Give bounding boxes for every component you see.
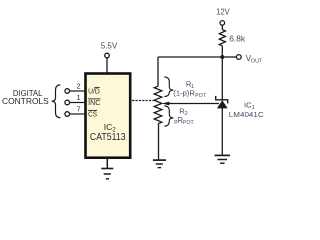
- pin terminal 1: [65, 100, 70, 105]
- svg-text:POT: POT: [183, 120, 194, 126]
- ground IC2: [101, 169, 113, 179]
- brace digital controls: [52, 85, 61, 118]
- svg-text:CONTROLS: CONTROLS: [2, 97, 49, 106]
- brace R1 section: [164, 77, 173, 97]
- svg-text:(1-p)R: (1-p)R: [173, 89, 195, 98]
- ground diode: [215, 155, 230, 163]
- svg-text:INC: INC: [88, 98, 100, 107]
- dashed control line from IC2 to pot: [132, 100, 154, 102]
- supply terminal 12V: [216, 8, 230, 26]
- svg-text:CS: CS: [88, 110, 97, 119]
- wire pin 7: [70, 113, 85, 115]
- wire IC2 to ground: [106, 158, 108, 168]
- svg-text:LM4041C: LM4041C: [229, 110, 264, 119]
- wire pot riser: [157, 57, 159, 86]
- label R1: [186, 79, 194, 90]
- pin label CS-bar: [88, 110, 97, 119]
- svg-text:1: 1: [77, 93, 81, 102]
- svg-text:CAT5113: CAT5113: [90, 132, 126, 143]
- label R2: [179, 106, 188, 117]
- wire pin 1: [70, 102, 85, 104]
- svg-text:2: 2: [77, 81, 81, 90]
- svg-text:POT: POT: [195, 93, 206, 99]
- potentiometer body (CAT5113): [154, 86, 162, 124]
- ground pot: [153, 160, 166, 168]
- brace R2 section: [164, 106, 173, 126]
- wire node to VOUT terminal: [222, 56, 236, 58]
- svg-text:7: 7: [77, 104, 81, 113]
- svg-text:6.8k: 6.8k: [229, 34, 246, 43]
- svg-text:5.5V: 5.5V: [101, 41, 118, 50]
- wire 12V to resistor: [221, 25, 223, 29]
- resistor 6.8k: [219, 30, 246, 46]
- label (1-p)RPOT: [173, 89, 206, 99]
- svg-text:U/D: U/D: [88, 87, 100, 96]
- wire pot to ground: [158, 124, 160, 160]
- svg-text:2: 2: [185, 111, 188, 117]
- pin terminal 2: [65, 89, 70, 94]
- label DIGITAL CONTROLS: [2, 89, 49, 106]
- pin terminal 7: [65, 112, 70, 117]
- label IC2: [104, 122, 116, 134]
- wire resistor to node: [221, 46, 223, 57]
- svg-text:OUT: OUT: [251, 58, 263, 64]
- pin label INC-bar: [88, 98, 100, 107]
- svg-text:12V: 12V: [216, 8, 230, 17]
- wire pin 2: [70, 90, 85, 92]
- wiper arrow wire to LM4041 FB: [162, 102, 219, 106]
- shunt reference IC1 LM4041C (zener-style diode): [216, 96, 228, 109]
- label IC1: [244, 100, 255, 111]
- wire top horizontal pot to node: [158, 56, 222, 58]
- IC2 box CAT5113: [86, 74, 131, 158]
- label pRPOT: [174, 116, 194, 126]
- supply terminal 5.5V: [101, 41, 118, 57]
- wire diode anode to ground: [221, 108, 223, 155]
- wire node to diode cathode: [221, 57, 223, 100]
- node junction dot: [220, 55, 224, 59]
- terminal VOUT: [236, 54, 262, 64]
- svg-text:IC: IC: [104, 122, 113, 132]
- pin label U/D-bar: [88, 87, 100, 96]
- wire 5.5V to IC2: [106, 58, 108, 73]
